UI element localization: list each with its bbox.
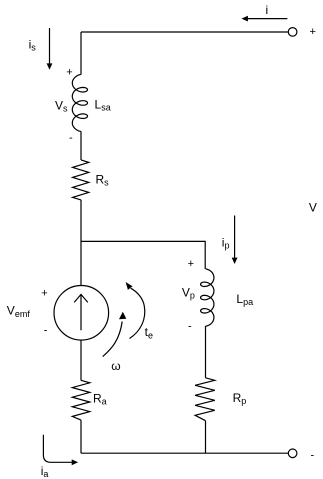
svg-text:ω: ω [111,359,120,373]
svg-text:-: - [44,325,48,337]
curved arrow omega [103,312,127,357]
resistor R_p [195,378,215,421]
svg-text:Lpa: Lpa [236,292,253,307]
wire left branch upper vertical [80,32,82,75]
svg-text:+: + [66,67,72,79]
svg-text:Vp: Vp [182,285,195,300]
svg-text:Vs: Vs [55,99,68,114]
source V_emf circle [54,286,109,341]
svg-text:Lsa: Lsa [95,98,111,113]
current arrow i_s [47,28,53,70]
svg-text:V: V [309,201,317,215]
wire top horizontal [81,31,288,33]
wire V_emf to R_a [80,340,82,380]
svg-text:-: - [69,132,73,144]
svg-text:-: - [188,321,192,333]
current arrow i (top right) [242,16,288,22]
svg-text:Rs: Rs [96,173,110,188]
resistor R_s [73,160,89,200]
curved arrow t_e [126,282,145,339]
svg-text:Ra: Ra [93,391,107,406]
svg-text:+: + [310,26,316,38]
svg-text:te: te [145,325,153,341]
source arrow inside [74,294,88,330]
svg-text:Rp: Rp [233,391,247,406]
wire L_pa to R_p [205,326,207,378]
svg-text:i: i [266,3,269,17]
resistor R_a [72,380,90,420]
current arrow i_p [232,216,238,265]
svg-text:ip: ip [222,235,230,250]
inductor L_sa [72,74,87,131]
svg-text:is: is [29,37,37,52]
inductor L_pa [201,269,214,326]
wire bottom horizontal [81,452,288,454]
wire between L_sa and R_s [80,131,82,160]
wire R_a to bottom corner [80,420,82,453]
svg-text:-: - [311,449,315,461]
svg-text:ia: ia [41,464,49,479]
svg-text:Vemf: Vemf [7,304,31,320]
wire R_p to bottom [205,421,207,454]
wire middle branch to right column [81,241,205,269]
wire R_s to V_emf source [80,200,82,286]
svg-text:+: + [188,258,194,270]
terminal circle top right [288,28,297,37]
svg-text:+: + [41,287,47,299]
current arrow i_a [43,435,78,465]
terminal circle bottom right [288,449,297,458]
